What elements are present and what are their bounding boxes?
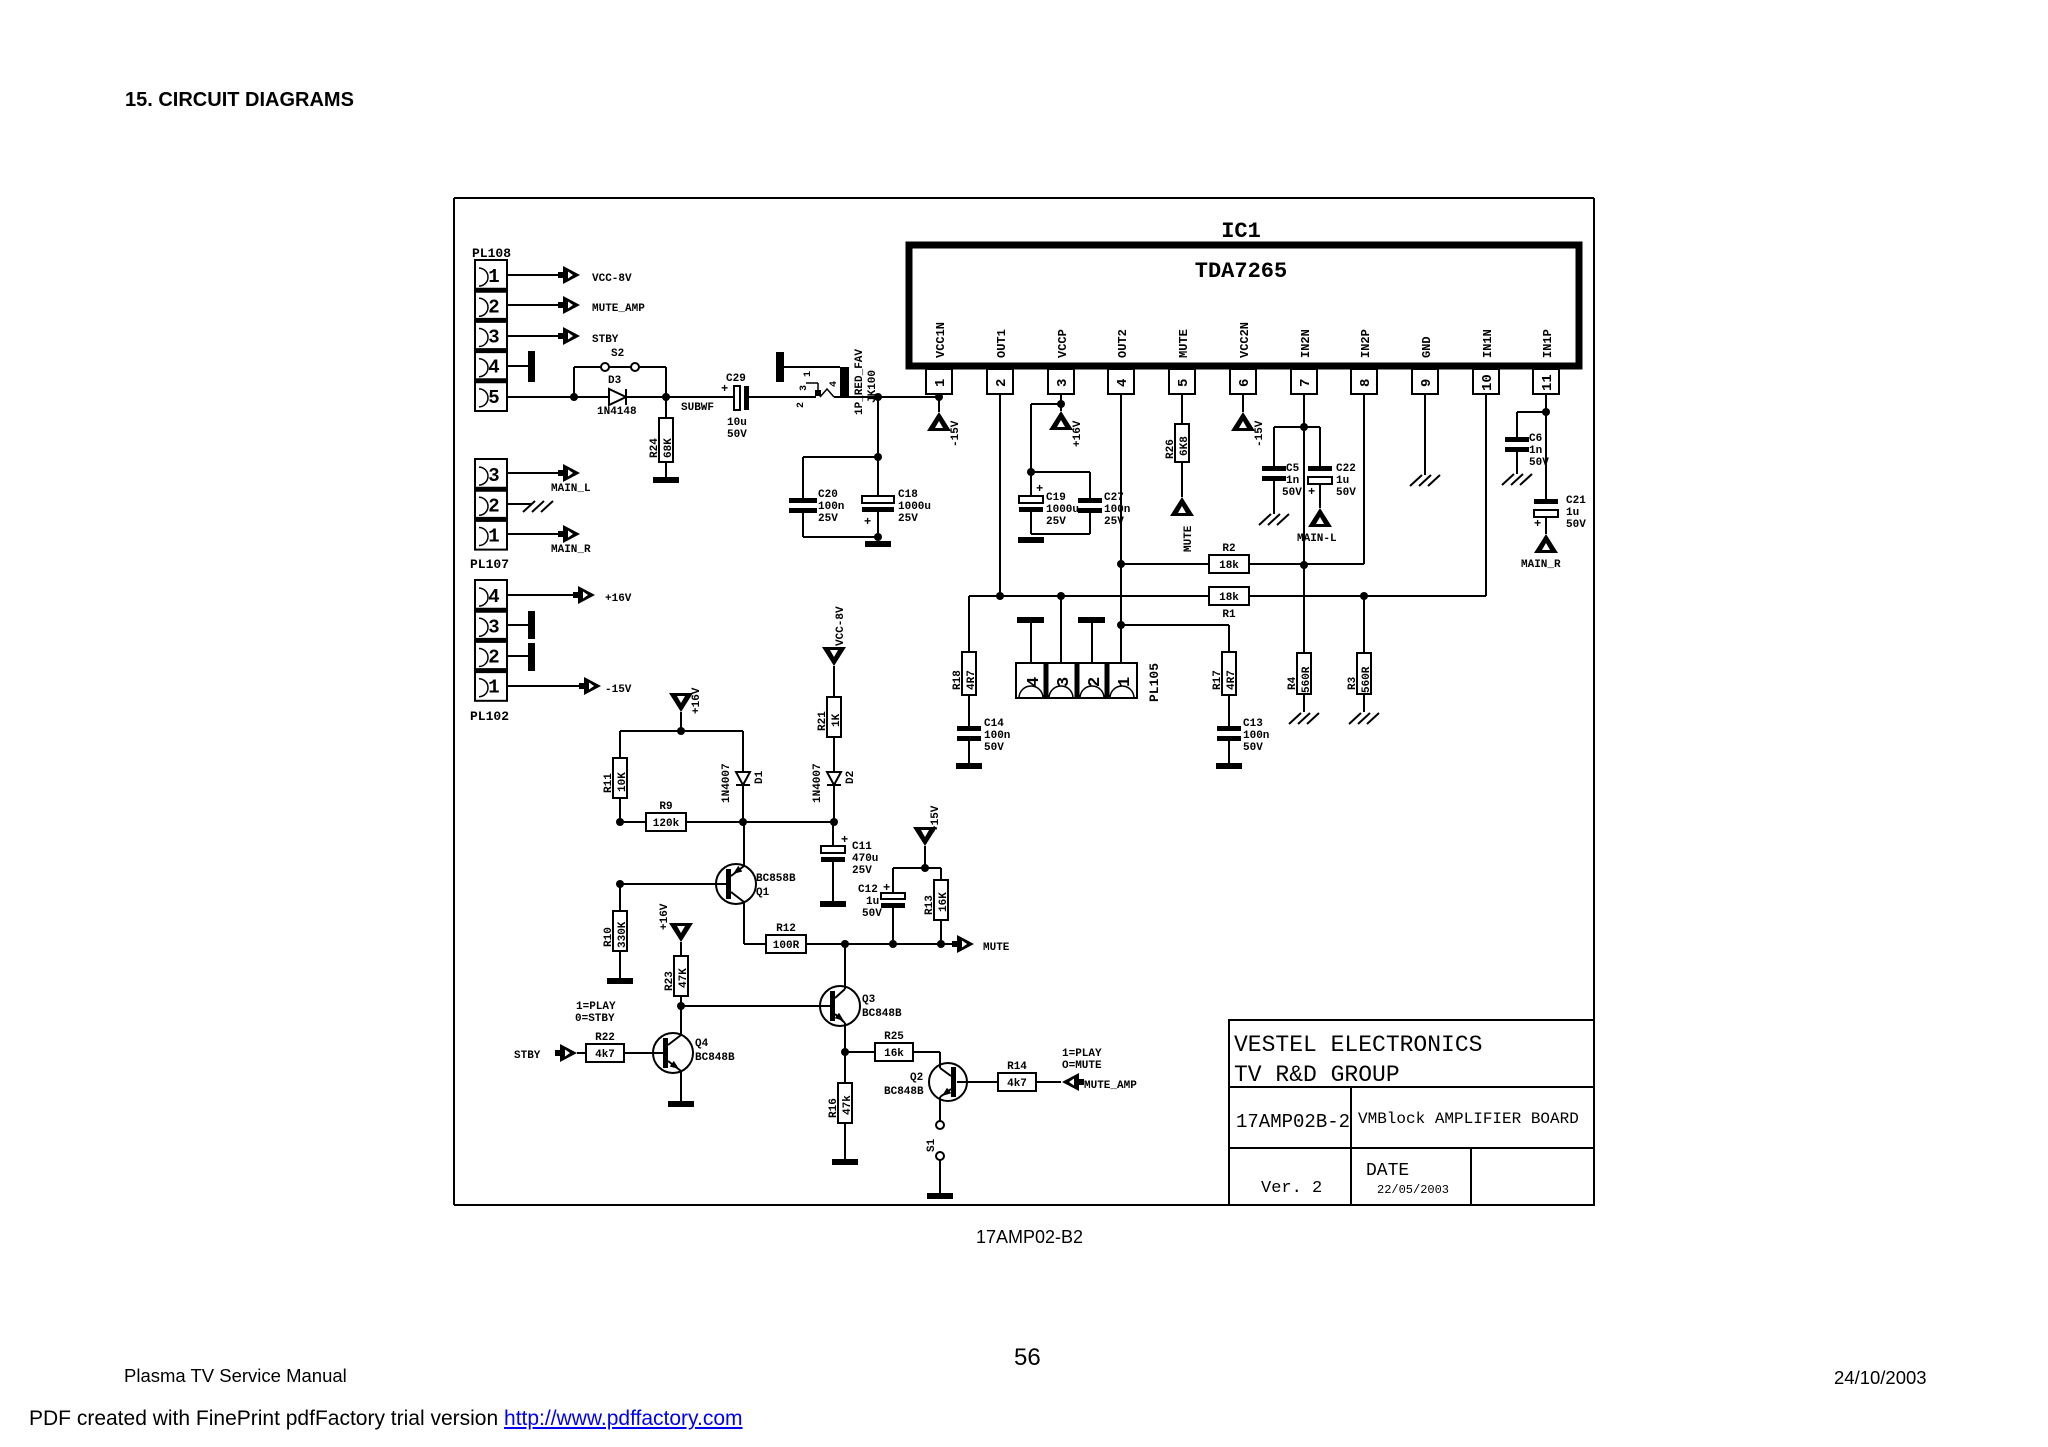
svg-text:4k7: 4k7 xyxy=(595,1049,615,1061)
svg-text:50V: 50V xyxy=(862,908,882,920)
svg-text:R13: R13 xyxy=(924,895,936,915)
flag MUTE_AMP xyxy=(1077,1079,1084,1085)
wire xyxy=(507,594,578,596)
svg-text:-15V: -15V xyxy=(950,420,962,447)
resistor R13 16K xyxy=(940,868,942,880)
svg-text:11: 11 xyxy=(1540,374,1556,391)
capacitor C19 1000u 25V xyxy=(1030,472,1032,496)
svg-text:PL105: PL105 xyxy=(1147,663,1162,702)
svg-text:1u: 1u xyxy=(866,896,879,908)
svg-text:50V: 50V xyxy=(1336,487,1356,499)
svg-text:Ver. 2: Ver. 2 xyxy=(1261,1179,1322,1198)
svg-text:TDA7265: TDA7265 xyxy=(1195,259,1287,284)
svg-text:120k: 120k xyxy=(653,818,680,830)
svg-text:10u: 10u xyxy=(727,417,747,429)
svg-text:17AMP02B-2: 17AMP02B-2 xyxy=(1236,1111,1350,1133)
capacitor C14 100n 50V xyxy=(957,726,981,731)
svg-text:25V: 25V xyxy=(818,513,838,525)
transistor Q4 BC848B xyxy=(653,1033,693,1073)
svg-text:MUTE: MUTE xyxy=(1177,329,1191,358)
resistor R10 330K xyxy=(619,884,621,911)
svg-text:R21: R21 xyxy=(817,711,829,731)
svg-text:+16V: +16V xyxy=(605,593,632,605)
wire pin3 xyxy=(507,335,563,337)
title block xyxy=(1229,1020,1594,1205)
svg-text:4: 4 xyxy=(1025,677,1044,687)
svg-text:9: 9 xyxy=(1419,379,1435,387)
svg-text:MUTE_AMP: MUTE_AMP xyxy=(1084,1080,1137,1092)
svg-text:C22: C22 xyxy=(1336,463,1356,475)
svg-text:MUTE_AMP: MUTE_AMP xyxy=(592,303,645,315)
svg-text:50V: 50V xyxy=(984,742,1004,754)
svg-text:C19: C19 xyxy=(1046,492,1066,504)
svg-text:1: 1 xyxy=(488,266,499,288)
ground xyxy=(607,978,633,984)
svg-text:3: 3 xyxy=(1055,677,1074,687)
resistor R14 4k7 xyxy=(957,1081,998,1083)
resistor R24 68K xyxy=(665,397,667,418)
svg-text:BC848B: BC848B xyxy=(862,1008,902,1020)
svg-text:50V: 50V xyxy=(1243,742,1263,754)
wire xyxy=(877,397,879,457)
svg-text:BC848B: BC848B xyxy=(695,1052,735,1064)
wire xyxy=(507,472,563,474)
svg-text:3: 3 xyxy=(488,327,499,349)
ground xyxy=(668,1101,694,1107)
svg-text:VCC2N: VCC2N xyxy=(1238,322,1252,358)
svg-text:560R: 560R xyxy=(1361,666,1373,693)
svg-text:VCC1N: VCC1N xyxy=(934,322,948,358)
svg-text:Q3: Q3 xyxy=(862,994,876,1006)
svg-text:4: 4 xyxy=(488,357,499,379)
svg-text:MUTE: MUTE xyxy=(1183,525,1195,552)
svg-text:R18: R18 xyxy=(952,670,964,690)
svg-text:R9: R9 xyxy=(659,801,672,813)
resistor R12 100R xyxy=(744,943,957,945)
resistor R4 560R xyxy=(1297,653,1311,694)
svg-text:3: 3 xyxy=(488,465,499,487)
svg-text:C14: C14 xyxy=(984,718,1004,730)
svg-text:1n: 1n xyxy=(1529,445,1542,457)
wire pin4 term xyxy=(507,365,528,367)
svg-text:10K: 10K xyxy=(617,772,629,792)
resistor R18 4R7 xyxy=(968,596,970,652)
chassis ground xyxy=(523,501,535,512)
svg-text:4: 4 xyxy=(829,381,840,387)
power flag -15V xyxy=(1231,412,1255,431)
svg-text:2: 2 xyxy=(488,647,499,669)
wire VCCP xyxy=(1060,394,1062,404)
svg-text:D3: D3 xyxy=(608,375,622,387)
svg-text:PL102: PL102 xyxy=(470,709,509,724)
svg-text:VCC-8V: VCC-8V xyxy=(592,273,632,285)
svg-text:R4: R4 xyxy=(1287,676,1299,690)
svg-text:+: + xyxy=(1308,485,1315,499)
svg-text:25V: 25V xyxy=(852,865,872,877)
ground xyxy=(653,477,679,483)
svg-text:+: + xyxy=(841,833,848,847)
resistor R21 1K xyxy=(827,697,841,737)
svg-text:3: 3 xyxy=(1055,379,1071,387)
svg-text:MAIN_L: MAIN_L xyxy=(551,483,591,495)
svg-text:1: 1 xyxy=(803,371,814,377)
capacitor C5 1n 50V xyxy=(1274,426,1304,428)
svg-text:VMBlock AMPLIFIER BOARD: VMBlock AMPLIFIER BOARD xyxy=(1358,1110,1579,1128)
flag VCC-8V xyxy=(558,272,565,278)
svg-text:MAIN_R: MAIN_R xyxy=(551,544,591,556)
svg-text:S2: S2 xyxy=(611,348,624,360)
svg-text:R24: R24 xyxy=(649,438,661,458)
ground xyxy=(1216,763,1242,769)
wire to C19 xyxy=(1031,403,1061,405)
capacitor C11 470u 25V xyxy=(832,822,834,846)
wire IN2P pin8 xyxy=(1363,394,1365,564)
svg-text:+: + xyxy=(864,515,871,529)
wire xyxy=(834,396,939,398)
svg-text:18k: 18k xyxy=(1219,592,1239,604)
power flag +16V xyxy=(1060,404,1062,411)
svg-text:R12: R12 xyxy=(776,923,796,935)
svg-text:IN2N: IN2N xyxy=(1299,329,1313,358)
wire GND pin9 xyxy=(1424,394,1426,475)
resistor R11 10K xyxy=(619,731,621,758)
resistor R16 47k xyxy=(844,1052,846,1083)
svg-text:+: + xyxy=(1036,482,1043,496)
ground xyxy=(820,901,846,907)
svg-text:C5: C5 xyxy=(1286,463,1300,475)
svg-text:-15V: -15V xyxy=(605,684,632,696)
svg-text:R2: R2 xyxy=(1222,543,1235,555)
svg-text:VESTEL ELECTRONICS: VESTEL ELECTRONICS xyxy=(1234,1032,1482,1058)
chassis ground xyxy=(1410,475,1422,486)
svg-text:DATE: DATE xyxy=(1366,1161,1409,1181)
svg-text:MUTE: MUTE xyxy=(983,942,1010,954)
wire OUT1 xyxy=(999,394,1001,596)
svg-text:1=PLAY: 1=PLAY xyxy=(1062,1048,1102,1060)
svg-text:1N4148: 1N4148 xyxy=(597,406,637,418)
svg-text:+: + xyxy=(1534,517,1541,531)
wire xyxy=(620,730,743,732)
svg-text:R23: R23 xyxy=(664,971,676,991)
svg-text:C6: C6 xyxy=(1529,433,1542,445)
svg-text:R22: R22 xyxy=(595,1032,615,1044)
svg-text:C13: C13 xyxy=(1243,718,1263,730)
svg-text:BC858B: BC858B xyxy=(756,873,796,885)
wire pin2 term xyxy=(507,655,528,657)
svg-text:50V: 50V xyxy=(1529,457,1549,469)
svg-text:47k: 47k xyxy=(842,1095,854,1115)
connector PL102 xyxy=(475,580,507,701)
svg-text:+16V: +16V xyxy=(1072,420,1084,447)
wire xyxy=(507,685,584,687)
svg-text:R1: R1 xyxy=(1222,609,1236,621)
transistor Q2 BC848B xyxy=(929,1063,967,1101)
IC U1 TDA7265 xyxy=(909,245,1579,366)
svg-text:VCCP: VCCP xyxy=(1056,329,1070,358)
svg-text:R17: R17 xyxy=(1212,670,1224,690)
flag MAIN_L xyxy=(558,470,565,476)
wire OUT2 zobel xyxy=(1121,624,1229,626)
wire pin2 gnd xyxy=(507,503,531,505)
svg-text:D1: D1 xyxy=(754,770,766,784)
svg-text:1000u: 1000u xyxy=(898,501,931,513)
svg-text:16K: 16K xyxy=(938,892,950,912)
svg-text:IC1: IC1 xyxy=(1221,219,1261,244)
capacitor C20 100n 25V xyxy=(789,498,817,503)
jack JK100 terminal bar xyxy=(776,352,784,382)
flag MAIN-L xyxy=(1308,508,1332,527)
svg-text:R16: R16 xyxy=(828,1098,840,1118)
svg-text:PL107: PL107 xyxy=(470,557,509,572)
flag +16V xyxy=(573,592,580,598)
svg-text:1n: 1n xyxy=(1286,475,1299,487)
wire pin1 xyxy=(507,274,563,276)
svg-text:47K: 47K xyxy=(678,968,690,988)
svg-text:100n: 100n xyxy=(984,730,1010,742)
svg-text:MAIN_R: MAIN_R xyxy=(1521,559,1561,571)
svg-text:7: 7 xyxy=(1298,379,1314,387)
wire MUTE pin5 xyxy=(1181,394,1183,424)
svg-text:50V: 50V xyxy=(1282,487,1302,499)
svg-text:C29: C29 xyxy=(726,373,746,385)
resistor R23 47K xyxy=(674,956,688,996)
svg-text:1000u: 1000u xyxy=(1046,504,1079,516)
svg-text:OUT1: OUT1 xyxy=(995,329,1009,358)
svg-text:5: 5 xyxy=(1176,379,1192,387)
resistor R17 4R7 xyxy=(1222,652,1236,695)
wire SUBWF xyxy=(666,396,735,398)
svg-text:18k: 18k xyxy=(1219,560,1239,572)
svg-text:1N4007: 1N4007 xyxy=(812,763,824,803)
svg-text:+: + xyxy=(721,382,728,396)
svg-text:2: 2 xyxy=(488,296,499,318)
capacitor C22 1u 50V xyxy=(1304,426,1320,428)
svg-text:2: 2 xyxy=(796,402,807,408)
capacitor C12 1u 50V xyxy=(892,868,894,893)
svg-text:50V: 50V xyxy=(1566,519,1586,531)
svg-text:3: 3 xyxy=(488,616,499,638)
svg-text:6K8: 6K8 xyxy=(1179,436,1191,456)
svg-text:68K: 68K xyxy=(663,438,675,458)
wire IN2N pin7 xyxy=(1303,394,1305,653)
svg-text:10: 10 xyxy=(1480,374,1496,391)
ground xyxy=(956,763,982,769)
svg-text:GND: GND xyxy=(1420,336,1434,358)
capacitor C21 1u 50V xyxy=(1534,510,1558,517)
wire R9 to D2 xyxy=(743,821,834,823)
wire xyxy=(507,533,563,535)
svg-text:100R: 100R xyxy=(773,940,800,952)
transistor Q1 BC858B xyxy=(716,864,756,904)
svg-text:R10: R10 xyxy=(603,927,615,947)
wire pin3 term xyxy=(507,624,528,626)
svg-text:TV R&D GROUP: TV R&D GROUP xyxy=(1234,1062,1400,1088)
svg-text:C20: C20 xyxy=(818,489,838,501)
wire OUT2 xyxy=(1120,394,1122,663)
flag MAIN_R xyxy=(558,531,565,537)
svg-text:100n: 100n xyxy=(1104,504,1130,516)
flag MUTE_AMP xyxy=(558,302,565,308)
flag MUTE xyxy=(952,941,959,947)
capacitor C13 100n 50V xyxy=(1217,726,1241,731)
svg-text:4R7: 4R7 xyxy=(1226,670,1238,690)
svg-text:-15V: -15V xyxy=(1254,420,1266,447)
wire VCC2N pin6 xyxy=(1242,394,1244,412)
svg-text:SUBWF: SUBWF xyxy=(681,402,714,414)
svg-text:100n: 100n xyxy=(1243,730,1269,742)
svg-text:IN1N: IN1N xyxy=(1481,329,1495,358)
flag MAIN_R xyxy=(1534,534,1558,553)
node SUBWF junctions xyxy=(570,393,578,401)
wire IN1P pin11 xyxy=(1545,394,1547,499)
svg-text:560R: 560R xyxy=(1301,666,1313,693)
svg-text:4: 4 xyxy=(1115,379,1131,387)
svg-text:C12: C12 xyxy=(858,884,878,896)
svg-text:16k: 16k xyxy=(884,1048,904,1060)
svg-text:2: 2 xyxy=(1086,677,1105,687)
svg-text:2: 2 xyxy=(488,495,499,517)
diode D3 1N4148 xyxy=(574,396,609,398)
svg-text:R11: R11 xyxy=(603,773,615,793)
svg-text:Q1: Q1 xyxy=(756,887,770,899)
wire IN1N pin10 xyxy=(1485,394,1487,596)
svg-text:1N4007: 1N4007 xyxy=(721,763,733,803)
flag MUTE xyxy=(1170,497,1194,516)
svg-text:1=PLAY: 1=PLAY xyxy=(576,1001,616,1013)
svg-text:3: 3 xyxy=(799,385,810,391)
jack JK100 xyxy=(840,367,849,398)
svg-text:R25: R25 xyxy=(884,1031,904,1043)
svg-text:R14: R14 xyxy=(1007,1061,1027,1073)
ground xyxy=(1018,537,1044,543)
ground xyxy=(927,1193,953,1199)
svg-text:470u: 470u xyxy=(852,853,878,865)
svg-text:+16V: +16V xyxy=(659,903,671,930)
ground xyxy=(865,541,891,547)
svg-text:1P_RED_FAV: 1P_RED_FAV xyxy=(854,349,866,415)
svg-text:IN2P: IN2P xyxy=(1359,329,1373,358)
resistor R3 560R xyxy=(1363,596,1365,653)
chassis ground xyxy=(1259,514,1271,525)
connector PL105 xyxy=(1016,663,1137,698)
wire base Q3 xyxy=(681,1005,830,1007)
resistor R9 120k xyxy=(620,821,743,823)
svg-text:1: 1 xyxy=(1116,677,1135,687)
flag STBY xyxy=(558,333,565,339)
svg-text:1: 1 xyxy=(933,379,949,387)
transistor Q3 BC848B xyxy=(820,986,860,1026)
svg-text:1u: 1u xyxy=(1336,475,1349,487)
svg-text:25V: 25V xyxy=(1046,516,1066,528)
svg-text:Q2: Q2 xyxy=(910,1072,923,1084)
svg-text:C18: C18 xyxy=(898,489,918,501)
wire pin5 xyxy=(507,396,574,398)
svg-text:STBY: STBY xyxy=(514,1050,541,1062)
chassis ground xyxy=(1502,474,1514,485)
flag -15V xyxy=(579,683,586,689)
svg-text:R26: R26 xyxy=(1165,439,1177,459)
svg-text:4: 4 xyxy=(488,586,499,608)
svg-text:330K: 330K xyxy=(617,921,629,948)
svg-text:6: 6 xyxy=(1237,379,1253,387)
power flag -15V xyxy=(938,397,940,412)
svg-text:5: 5 xyxy=(488,387,499,409)
svg-text:S1: S1 xyxy=(926,1138,938,1152)
capacitor C18 1000u 25V xyxy=(877,457,879,496)
svg-text:C21: C21 xyxy=(1566,495,1586,507)
svg-text:1u: 1u xyxy=(1566,507,1579,519)
svg-text:0=STBY: 0=STBY xyxy=(575,1013,615,1025)
diode D1 1N4007 xyxy=(742,731,744,772)
resistor R26 6K8 xyxy=(1175,424,1189,462)
svg-text:D2: D2 xyxy=(845,771,857,784)
svg-text:+: + xyxy=(883,881,890,895)
resistor R25 16k xyxy=(845,1051,875,1053)
svg-text:4k7: 4k7 xyxy=(1007,1078,1027,1090)
svg-text:22/05/2003: 22/05/2003 xyxy=(1377,1183,1449,1197)
svg-text:Q4: Q4 xyxy=(695,1038,709,1050)
terminal bars above PL105 pins xyxy=(1017,617,1044,623)
svg-text:1K: 1K xyxy=(831,713,843,727)
svg-text:100n: 100n xyxy=(818,501,844,513)
svg-text:OUT2: OUT2 xyxy=(1116,329,1130,358)
svg-text:C11: C11 xyxy=(852,841,872,853)
svg-text:4R7: 4R7 xyxy=(966,670,978,690)
chassis ground xyxy=(1349,713,1361,724)
svg-text:VCC-8V: VCC-8V xyxy=(835,606,847,646)
ground xyxy=(832,1159,858,1165)
svg-text:BC848B: BC848B xyxy=(884,1086,924,1098)
capacitor C6 1n 50V xyxy=(1517,411,1546,413)
svg-text:PL108: PL108 xyxy=(472,246,511,261)
svg-text:25V: 25V xyxy=(898,513,918,525)
diode D2 1N4007 xyxy=(827,772,841,785)
svg-text:STBY: STBY xyxy=(592,334,619,346)
wire pin2 xyxy=(507,304,563,306)
svg-text:MAIN-L: MAIN-L xyxy=(1297,533,1337,545)
chassis ground xyxy=(1289,713,1301,724)
capacitor C27 100n 25V xyxy=(1031,471,1090,473)
wire pin1 down xyxy=(938,394,940,397)
connector PL107 xyxy=(475,459,507,550)
svg-text:8: 8 xyxy=(1358,379,1374,387)
svg-text:1: 1 xyxy=(488,677,499,699)
resistor R1 18k xyxy=(969,595,1486,597)
svg-text:O=MUTE: O=MUTE xyxy=(1062,1060,1102,1072)
svg-text:+16V: +16V xyxy=(691,687,703,714)
svg-text:1: 1 xyxy=(488,526,499,548)
wire PL105 pin3 xyxy=(1060,596,1062,663)
svg-text:2: 2 xyxy=(994,379,1010,387)
svg-text:50V: 50V xyxy=(727,429,747,441)
svg-text:IN1P: IN1P xyxy=(1541,329,1555,358)
resistor R2 18k xyxy=(1121,563,1364,565)
svg-text:R3: R3 xyxy=(1347,676,1359,690)
